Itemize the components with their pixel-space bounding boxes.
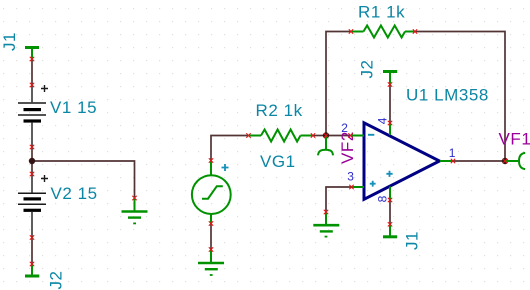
probe VF2 <box>318 136 333 156</box>
svg-text:J2: J2 <box>358 59 377 78</box>
svg-text:8: 8 <box>375 195 389 202</box>
wire node VF2 up to R1 left <box>326 32 351 136</box>
svg-text:V2 15: V2 15 <box>51 184 98 203</box>
terminal J2 opamp <box>383 72 397 85</box>
ground opamp <box>313 212 339 237</box>
node marker x R2 right <box>311 133 315 137</box>
node marker x J1 opamp <box>388 222 392 226</box>
node VF2 junction <box>323 132 329 138</box>
output node junction <box>502 158 508 164</box>
node marker x pin8 <box>388 198 392 202</box>
ground left <box>122 198 148 223</box>
svg-text:2: 2 <box>341 121 348 135</box>
wire VG1 top to R2 left <box>211 136 249 161</box>
wire J1 to V1+ <box>31 59 33 85</box>
plus sign input <box>370 181 376 187</box>
node marker x R1 left <box>349 29 353 33</box>
battery V2 <box>18 174 48 238</box>
wire pin 3 to ground <box>326 187 352 212</box>
wire R1 right to output node <box>415 32 505 162</box>
node marker x VG1 bottom <box>209 221 213 225</box>
svg-text:R2 1k: R2 1k <box>256 101 303 120</box>
pin 3 stub <box>352 186 365 188</box>
pin 4 stub <box>389 123 391 135</box>
generator VG1 <box>192 161 231 224</box>
node marker x gnd opamp <box>324 210 328 214</box>
node marker x R2 left <box>246 133 250 137</box>
node marker x pin3 <box>349 185 353 189</box>
node marker x VF2 node <box>324 133 328 137</box>
wire J2 terminal to pin 4 <box>389 85 391 124</box>
battery V1 <box>18 85 48 147</box>
node marker x VG1 top <box>209 158 213 162</box>
wire VG1 bottom to ground <box>210 224 212 250</box>
node marker x V2- <box>30 235 34 239</box>
wire node VF2 to pin 2 <box>326 135 351 137</box>
resistor R1 <box>351 26 415 38</box>
ground VG1 <box>198 250 224 276</box>
node marker x J1 <box>30 57 34 61</box>
node marker x J2 opamp <box>388 82 392 86</box>
pin 8 stub <box>389 187 391 201</box>
pin 1 stub <box>440 160 453 162</box>
minus sign input <box>368 134 374 136</box>
svg-text:3: 3 <box>347 170 354 184</box>
svg-text:1: 1 <box>449 146 456 160</box>
node marker x pin4 <box>388 121 392 125</box>
node marker x gnd VG1 <box>209 247 213 251</box>
node marker x pin1 <box>451 159 455 163</box>
wire V1- through node A to V2+ <box>31 147 33 174</box>
node marker x gnd left <box>132 196 136 200</box>
terminal J2 left <box>25 264 39 276</box>
node marker x V1- <box>30 145 34 149</box>
resistor R2 <box>249 130 314 142</box>
node marker x output <box>503 159 507 163</box>
VG1 plus sign <box>222 164 229 171</box>
node marker x pin2 <box>348 133 352 137</box>
probe VF1 <box>505 153 525 169</box>
pin 2 stub <box>351 135 365 137</box>
terminal J1 opamp <box>383 224 397 237</box>
node marker x J2 <box>30 262 34 266</box>
svg-text:U1 LM358: U1 LM358 <box>406 86 489 105</box>
wire R2 right to node VF2 <box>313 135 326 137</box>
terminal J1 left <box>25 48 39 60</box>
svg-text:J2: J2 <box>47 270 66 289</box>
op-amp U1 <box>364 123 440 200</box>
svg-text:VG1: VG1 <box>260 152 296 171</box>
wire V2- to J2 <box>31 238 33 265</box>
svg-text:VF1: VF1 <box>499 130 530 149</box>
node marker x R1 right <box>413 29 417 33</box>
node marker x V2+ <box>30 172 34 176</box>
svg-text:J1: J1 <box>402 231 421 250</box>
wire pin 8 to J1 terminal <box>389 200 391 224</box>
plus sign inner <box>386 171 392 177</box>
svg-text:J1: J1 <box>0 32 19 51</box>
svg-text:R1 1k: R1 1k <box>358 3 405 22</box>
node A junction <box>29 158 35 164</box>
svg-text:4: 4 <box>375 117 389 124</box>
wire node A to left ground <box>32 161 135 198</box>
wire pin 1 to output node <box>453 160 505 162</box>
svg-text:V1 15: V1 15 <box>50 98 97 117</box>
node marker x V1+ <box>30 83 34 87</box>
